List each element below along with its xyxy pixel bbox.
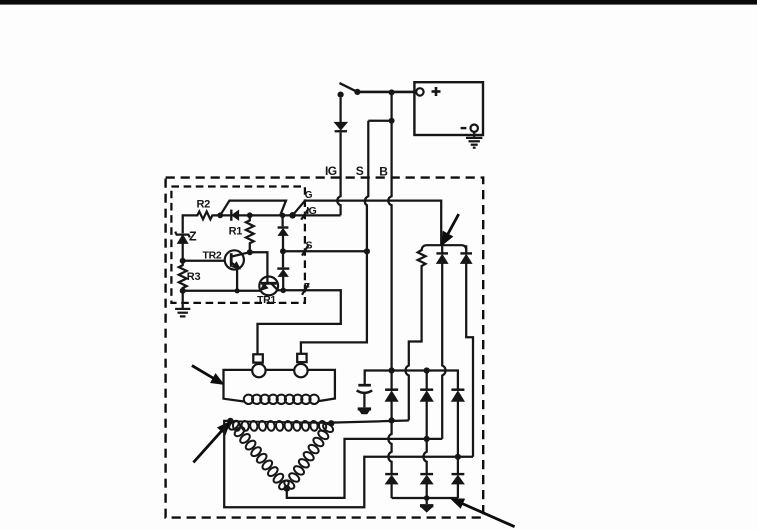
- annotation arrow (diode trio): [447, 214, 458, 235]
- annotation arrow (field coil): [192, 366, 214, 379]
- node: phase 1 / column 1: [389, 417, 395, 423]
- wire: stator phase 1 to rectifier: [331, 421, 409, 423]
- node: zener / R3 / TR2 base: [180, 258, 186, 264]
- wire: emitter rail: [183, 290, 261, 292]
- resistor R3: [179, 261, 187, 291]
- svg-text:R3: R3: [187, 271, 201, 283]
- brush 2 holder: [297, 354, 306, 362]
- wire S branch to battery feed: [368, 120, 391, 122]
- wire: F rail to field brush: [258, 290, 341, 354]
- stator top phase coil: [232, 421, 326, 432]
- wire: TR2 base lead: [183, 260, 225, 262]
- node: D1 / R1 top: [247, 212, 253, 218]
- collector plate (parallelogram) of TR1: [220, 201, 286, 216]
- node: S rail / brush riser junction: [364, 248, 370, 254]
- wire: brush 2 riser to S rail: [301, 251, 367, 353]
- brush 2 slip ring: [294, 364, 307, 377]
- node: phase 3 / column 3: [455, 454, 461, 460]
- node: stator corner bottom: [283, 485, 290, 492]
- battery BT1 box: [414, 82, 483, 135]
- svg-text:Z: Z: [189, 230, 197, 244]
- diode D1 (points left): [230, 210, 232, 221]
- node: ground tap: [424, 495, 430, 501]
- terminal pin tick F: [302, 284, 309, 295]
- node: stator corner top-left: [227, 418, 233, 424]
- node: B wire on B+ bus: [389, 367, 395, 373]
- node: D2 top: [280, 213, 285, 218]
- node: D3 on F rail: [280, 288, 286, 294]
- wire: base node to TR1: [250, 252, 268, 283]
- stator left phase coil: [227, 419, 290, 491]
- wire: rail to regulator ground: [182, 291, 184, 308]
- svg-text:F: F: [304, 282, 310, 293]
- zener diode Z: [175, 232, 190, 238]
- wire: column 2 lower (hop over phase 3): [423, 439, 426, 474]
- svg-text:S: S: [356, 164, 364, 178]
- wire: column 1 lower (hops over phase 2 and 3): [388, 420, 391, 473]
- terminal pin tick IG: [301, 208, 309, 219]
- svg-text:R1: R1: [229, 226, 243, 238]
- wire G bus to diode trio: [305, 201, 441, 245]
- annotation arrow (ground terminal): [462, 504, 514, 527]
- rectifier positive diode DP1: [390, 371, 392, 390]
- node: phase 2 / column 2: [424, 436, 430, 442]
- rectifier positive diode DP2: [426, 371, 428, 390]
- capacitor C1: [358, 384, 371, 387]
- regulator top bus wire: [183, 212, 341, 234]
- svg-text:TR1: TR1: [257, 294, 276, 306]
- node: G/IG connector: [289, 212, 296, 219]
- stator delta winding top wire: [230, 421, 331, 423]
- ground (rectifier): [426, 498, 428, 504]
- node: column 2 on B+ bus: [424, 367, 430, 373]
- diode D3 (S to F): [282, 251, 284, 267]
- wire: TR2 emitter drop: [236, 269, 238, 291]
- node: stator corner top-right: [328, 420, 334, 426]
- node: D2/D3 on S rail: [280, 248, 286, 254]
- ground (battery): [466, 132, 482, 148]
- node: R3 bottom / emitter rail: [180, 288, 186, 294]
- wire B lead (vertical): [388, 92, 391, 370]
- terminal pin G (diagonal): [293, 201, 306, 216]
- wire: stator phase 3 to rectifier: [224, 421, 473, 507]
- field coil (rotor) frame: [224, 370, 335, 402]
- stator right phase coil: [283, 422, 335, 491]
- ground (regulator): [175, 309, 190, 317]
- trio resistor R4: [406, 250, 426, 420]
- wire S lead (vertical): [365, 121, 368, 252]
- brush 1 slip ring: [252, 364, 265, 377]
- brush 1 holder: [253, 354, 262, 362]
- wire IG lead (vertical): [337, 132, 340, 215]
- wire: switch to battery positive: [357, 91, 416, 94]
- node: S tap on B wire: [389, 118, 395, 124]
- node: R2 to plate: [217, 212, 223, 218]
- diode trio bus: [422, 245, 467, 251]
- transistor TR1: [259, 277, 278, 296]
- svg-text:IG: IG: [306, 205, 316, 217]
- node: battery feed junction: [389, 89, 395, 95]
- svg-text:G: G: [305, 190, 313, 201]
- wire: rectifier ground bus: [392, 497, 458, 499]
- battery positive terminal circle: [416, 88, 423, 95]
- ignition switch contact node (left): [338, 92, 344, 98]
- svg-text:TR2: TR2: [203, 250, 222, 262]
- trio diode D4: [441, 245, 443, 253]
- field coil winding: [244, 395, 319, 404]
- annotation arrow (stator): [193, 431, 221, 463]
- diode D2 (bus to S): [281, 215, 283, 226]
- B+ rectifier bus: [365, 371, 458, 390]
- rectifier positive diode DP3: [451, 388, 464, 391]
- alternator outer dashed box: [166, 178, 484, 518]
- terminal pin tick S: [302, 245, 309, 256]
- wire: S sense rail: [283, 250, 367, 252]
- trio diode D5: [465, 245, 467, 253]
- resistor R1: [246, 215, 254, 252]
- wire: stator phase 2 to rectifier: [287, 439, 442, 498]
- rectifier negative diode DN3: [452, 473, 465, 475]
- ignition switch lever: [340, 83, 358, 92]
- svg-text:S: S: [306, 240, 313, 252]
- ignition switch contact node (right): [354, 89, 360, 95]
- node: R1 bottom / TR2 collector / TR1 base: [247, 249, 253, 255]
- ground (capacitor): [358, 407, 371, 410]
- battery negative terminal circle: [471, 125, 478, 132]
- battery minus sign: [461, 127, 467, 129]
- regulator inner dashed box: [171, 187, 305, 303]
- scan page top border bar: [0, 0, 757, 5]
- charge indicator diode D0: [339, 98, 341, 123]
- rectifier negative diode DN2: [420, 473, 433, 475]
- svg-text:R2: R2: [197, 199, 211, 211]
- svg-text:IG: IG: [325, 164, 337, 178]
- svg-text:B: B: [379, 165, 388, 179]
- transistor TR2: [225, 250, 244, 269]
- node: TR2 emitter on rail: [235, 288, 240, 293]
- rectifier negative diode DN1: [385, 473, 398, 475]
- battery plus sign: [432, 87, 441, 96]
